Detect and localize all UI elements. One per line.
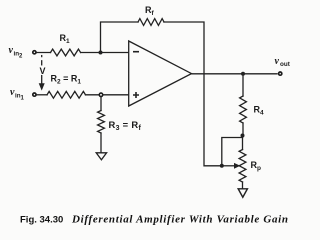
svg-text:Differential Amplifier With Va: Differential Amplifier With Variable Gai… [71, 214, 288, 226]
svg-text:R3 = Rf: R3 = Rf [109, 119, 142, 132]
svg-text:R1: R1 [60, 33, 71, 45]
svg-text:R2 = R1: R2 = R1 [51, 74, 82, 86]
svg-text:2: 2 [19, 54, 23, 60]
svg-text:Rf: Rf [145, 5, 155, 17]
svg-text:v: v [275, 56, 280, 67]
svg-text:out: out [280, 61, 291, 68]
svg-text:Rp: Rp [251, 160, 262, 172]
svg-text:V: V [40, 66, 46, 76]
svg-text:R4: R4 [254, 104, 265, 116]
svg-text:Fig. 34.30: Fig. 34.30 [20, 214, 63, 225]
svg-text:1: 1 [21, 95, 25, 101]
